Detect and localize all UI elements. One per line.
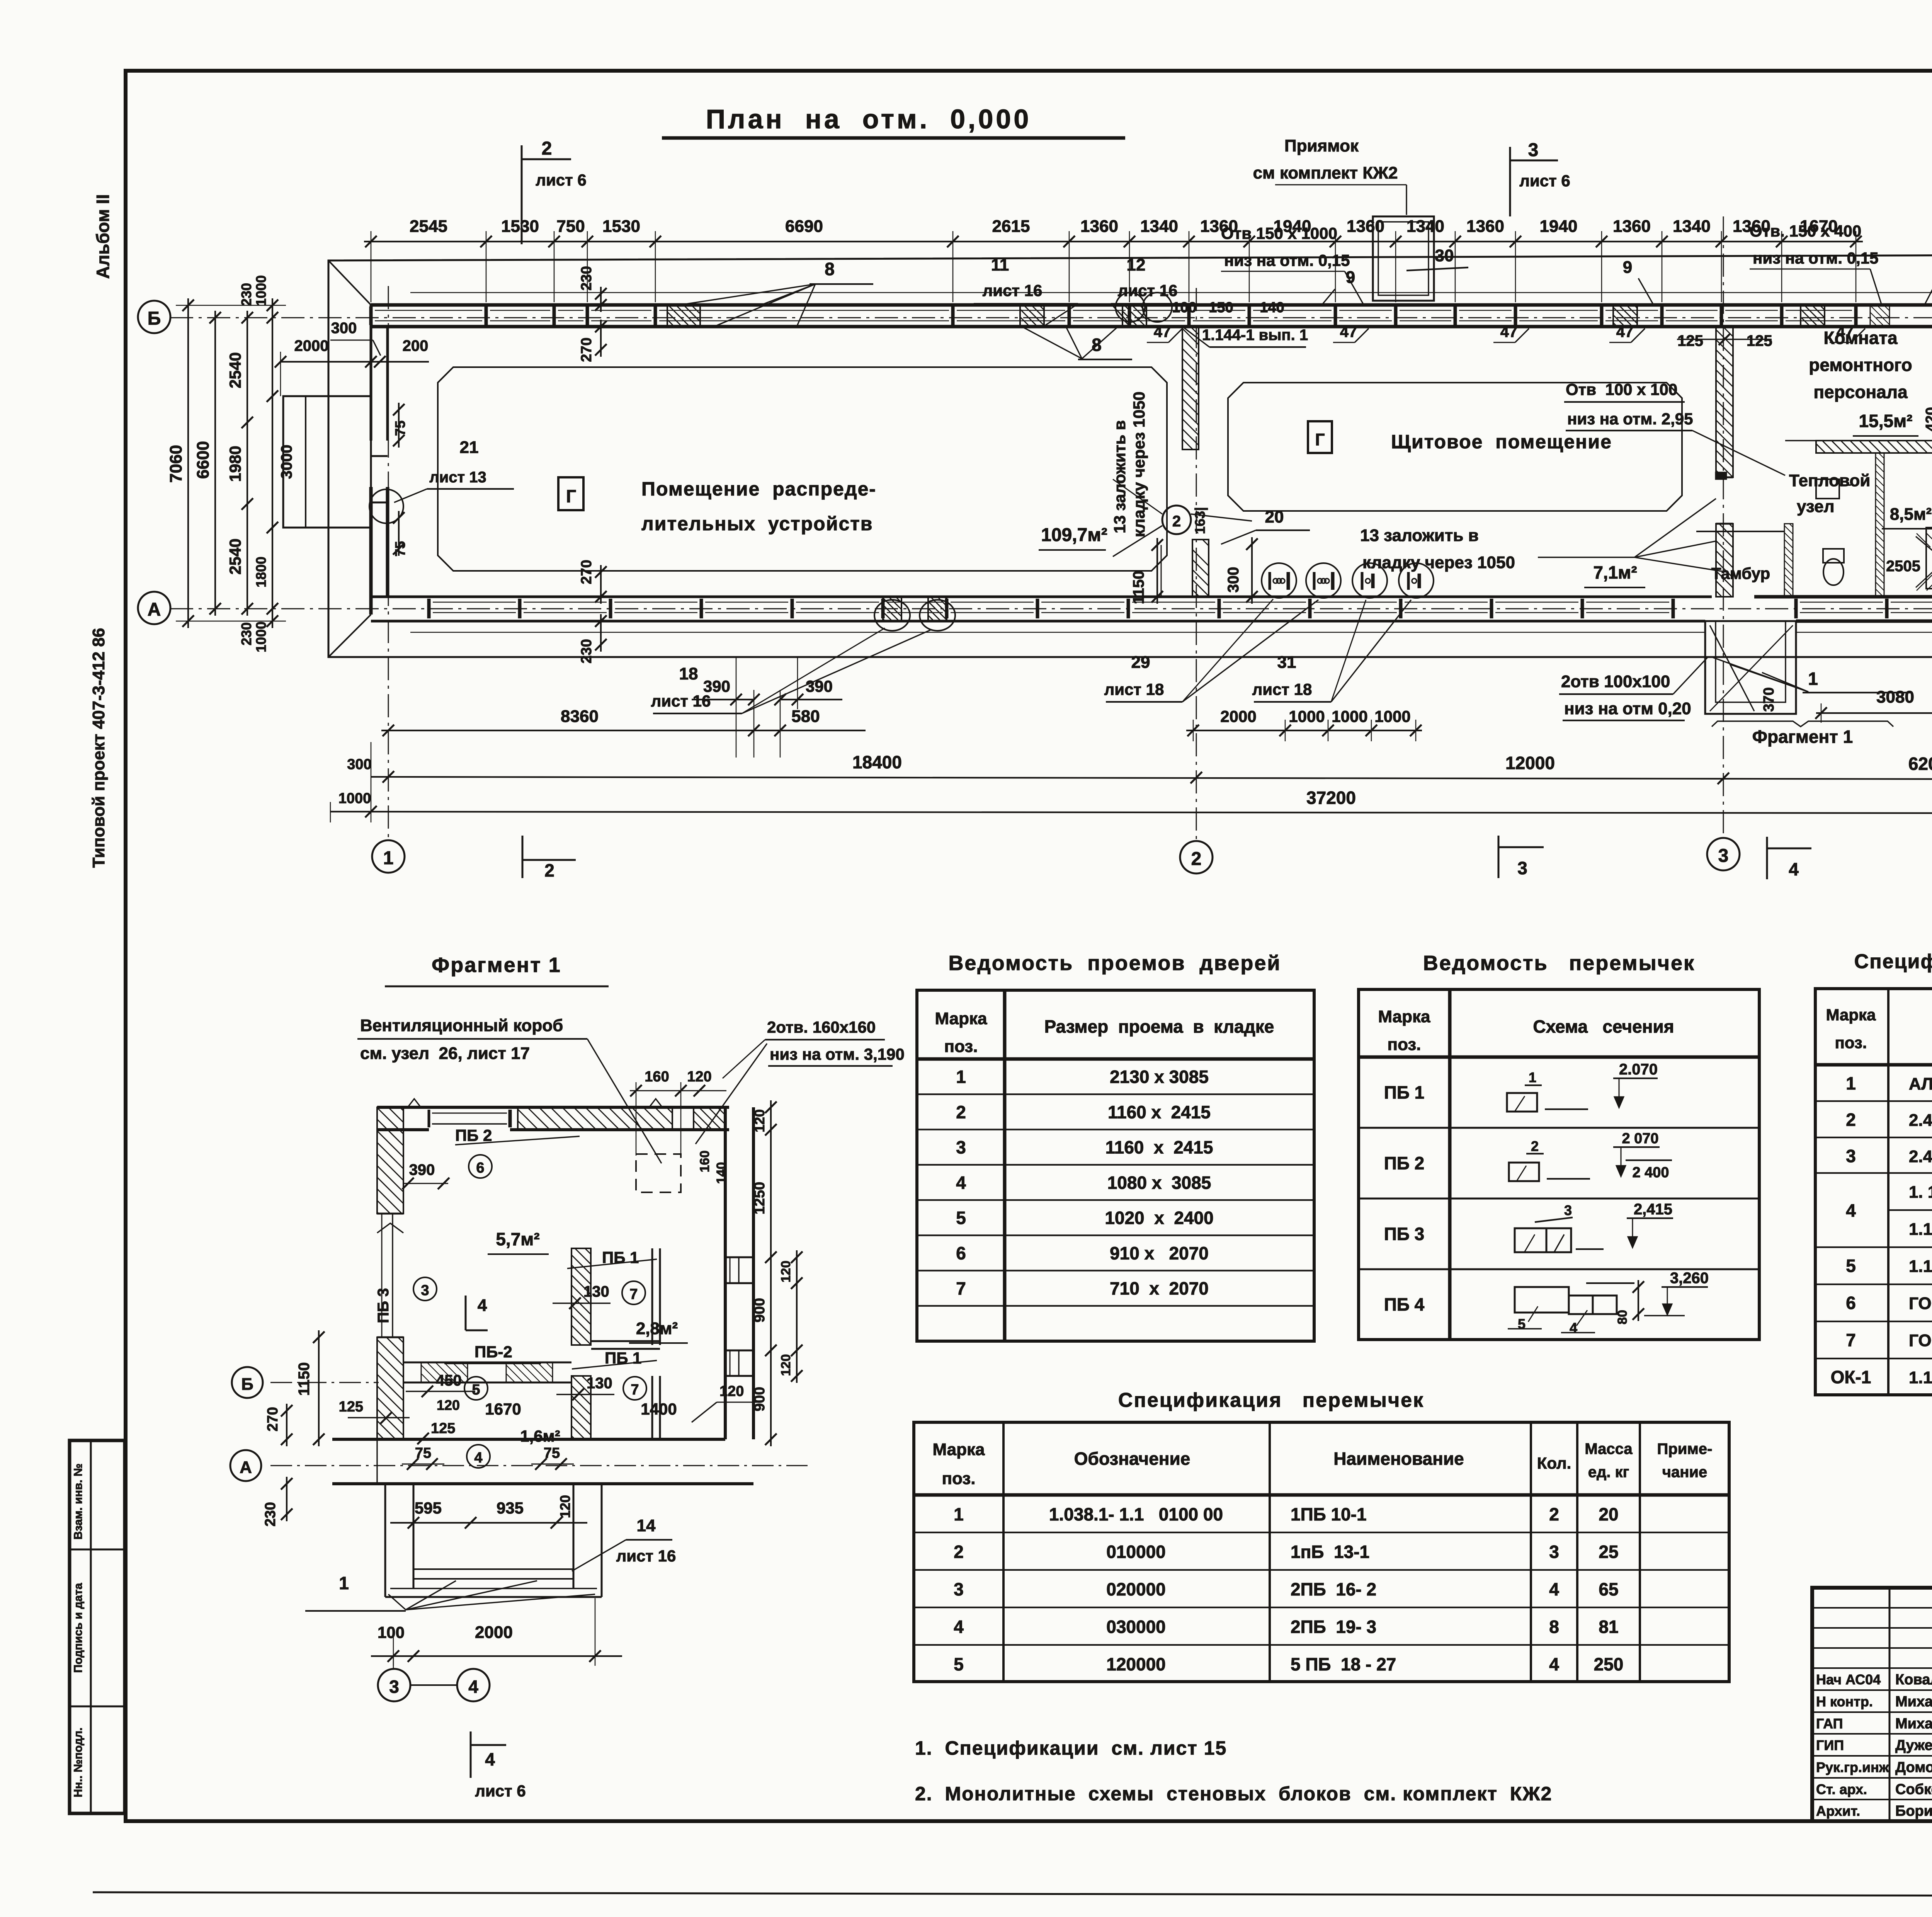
horizontal dims 2000 200 porch: [281, 361, 429, 363]
hatched piers in top wall: [667, 305, 700, 327]
svg-text:низ на отм. 2,95: низ на отм. 2,95: [1567, 410, 1693, 428]
svg-text:Нн.. №подл.: Нн.. №подл.: [72, 1728, 85, 1798]
svg-text:1340: 1340: [1673, 217, 1711, 236]
svg-text:7060: 7060: [167, 445, 185, 483]
svg-text:Собко: Собко: [1895, 1781, 1932, 1798]
axis circle 3 bottom: [1707, 838, 1740, 870]
svg-text:1ПБ 10-1: 1ПБ 10-1: [1291, 1504, 1367, 1524]
apron corner diagonal top-left: [328, 260, 371, 305]
svg-text:37200: 37200: [1306, 788, 1356, 808]
svg-text:4: 4: [1549, 1579, 1559, 1599]
svg-text:1: 1: [956, 1067, 966, 1087]
svg-text:3: 3: [1846, 1146, 1856, 1166]
svg-text:120: 120: [557, 1495, 573, 1518]
svg-text:Спецификация элементов запо: Спецификация элементов заполнения проемо…: [1854, 950, 1932, 973]
svg-text:420: 420: [1923, 407, 1932, 431]
svg-text:низ на отм. 0,15: низ на отм. 0,15: [1224, 251, 1350, 269]
svg-text:65: 65: [1599, 1579, 1618, 1599]
axis circle 2 bottom: [1180, 841, 1213, 873]
svg-text:1150: 1150: [1130, 571, 1147, 604]
dim 8360 580: [381, 730, 866, 731]
svg-text:Марка: Марка: [935, 1009, 987, 1028]
svg-text:2000: 2000: [1220, 707, 1256, 725]
svg-text:1: 1: [383, 848, 394, 868]
svg-text:Рук.гр.инж: Рук.гр.инж: [1816, 1759, 1889, 1775]
svg-text:7: 7: [629, 1286, 638, 1302]
svg-text:900: 900: [752, 1387, 768, 1411]
svg-text:1980: 1980: [226, 446, 244, 482]
svg-text:12000: 12000: [1505, 753, 1555, 773]
svg-text:30: 30: [1435, 246, 1454, 265]
svg-text:1000: 1000: [1289, 707, 1325, 725]
title block outer box: [1812, 1588, 1932, 1821]
svg-text:910 х 2070: 910 х 2070: [1110, 1243, 1209, 1263]
svg-text:ремонтного: ремонтного: [1809, 355, 1912, 375]
svg-text:390: 390: [806, 677, 833, 695]
svg-text:1530: 1530: [501, 217, 539, 236]
svg-text:3,260: 3,260: [1670, 1270, 1709, 1287]
svg-text:Вентиляционный короб: Вентиляционный короб: [360, 1016, 563, 1035]
svg-text:лист 6: лист 6: [1519, 172, 1570, 190]
svg-text:935: 935: [497, 1499, 524, 1517]
svg-text:15,5м²: 15,5м²: [1859, 411, 1913, 431]
svg-text:1000: 1000: [253, 275, 269, 306]
svg-text:6200: 6200: [1908, 754, 1932, 774]
svg-text:Кол.: Кол.: [1537, 1454, 1571, 1472]
RU room letter box: [558, 477, 583, 510]
fragment axis circles 3 4 bottom: [378, 1669, 410, 1701]
ellipse marks around piers: [874, 600, 910, 631]
svg-text:18400: 18400: [852, 752, 902, 772]
svg-text:1: 1: [1529, 1069, 1536, 1085]
svg-text:595: 595: [415, 1499, 442, 1517]
svg-text:270: 270: [578, 560, 595, 584]
svg-text:163|: 163|: [1192, 507, 1208, 534]
svg-text:2,415: 2,415: [1634, 1201, 1672, 1218]
opening hatch top right wall: [1870, 305, 1889, 327]
svg-text:1360: 1360: [1466, 217, 1504, 236]
fragment bottom wall: [332, 1438, 725, 1441]
svg-text:130: 130: [583, 1283, 609, 1300]
svg-text:7: 7: [631, 1382, 639, 1398]
partition between rooms at axis 2: [1182, 327, 1199, 449]
svg-text:лист 13: лист 13: [429, 469, 486, 486]
svg-text:270: 270: [578, 337, 595, 362]
svg-text:Н контр.: Н контр.: [1816, 1694, 1873, 1709]
svg-text:1000: 1000: [1374, 707, 1410, 725]
svg-text:5: 5: [472, 1382, 480, 1398]
svg-text:2. Монолитные схемы стеновы: 2. Монолитные схемы стеновых блоков см. …: [915, 1783, 1552, 1805]
svg-text:109,7м²: 109,7м²: [1041, 525, 1107, 545]
svg-text:Ведомость перемычек: Ведомость перемычек: [1423, 952, 1695, 975]
svg-text:1000: 1000: [253, 621, 269, 652]
left wall inner face: [386, 327, 389, 441]
svg-text:4: 4: [468, 1677, 478, 1697]
left dim 6600: [214, 311, 216, 616]
svg-text:см. узел 26, лист 17: см. узел 26, лист 17: [360, 1044, 530, 1063]
lintel PB3 sketch: [1515, 1228, 1546, 1252]
pit shaft above axis 3: [1373, 216, 1434, 301]
svg-text:А: А: [148, 599, 161, 620]
svg-text:лист 16: лист 16: [983, 281, 1043, 300]
svg-text:Б: Б: [241, 1375, 253, 1394]
svg-text:125: 125: [431, 1420, 455, 1437]
apron inner edge top: [410, 292, 1932, 293]
svg-text:Наименование: Наименование: [1333, 1449, 1464, 1469]
svg-text:Альбом II: Альбом II: [93, 194, 113, 279]
svg-text:120000: 120000: [1106, 1654, 1166, 1674]
bottom wall window sills and ticks: [433, 602, 516, 603]
svg-text:4: 4: [956, 1173, 966, 1193]
svg-text:8360: 8360: [561, 707, 599, 726]
svg-text:3: 3: [954, 1579, 964, 1599]
svg-text:АЛЬБо М V АРИ-3: АЛЬБо М V АРИ-3: [1909, 1074, 1932, 1093]
svg-text:Отв 150 х 1000: Отв 150 х 1000: [1221, 224, 1337, 242]
svg-text:3: 3: [1718, 846, 1729, 866]
svg-text:2: 2: [1172, 513, 1181, 530]
svg-text:4: 4: [954, 1617, 964, 1637]
svg-text:300: 300: [331, 320, 357, 337]
svg-text:Взам. инв. №: Взам. инв. №: [72, 1464, 85, 1540]
svg-text:2ПБ 16- 2: 2ПБ 16- 2: [1291, 1579, 1376, 1599]
svg-text:ПБ 4: ПБ 4: [1384, 1294, 1425, 1314]
svg-text:1.136.5- 19: 1.136.5- 19: [1909, 1257, 1932, 1276]
apron inner edge bottom: [410, 632, 1705, 633]
svg-text:Архит.: Архит.: [1816, 1803, 1860, 1819]
top wall window sills and mullion ticks: [375, 310, 482, 311]
fragment right dims: [770, 1100, 772, 1446]
svg-text:Приямок: Приямок: [1284, 136, 1359, 155]
fragment section mark 4 bottom: [470, 1731, 472, 1778]
svg-text:поз.: поз.: [1835, 1033, 1867, 1052]
svg-text:140: 140: [1260, 300, 1284, 316]
svg-text:Ковалев: Ковалев: [1895, 1672, 1932, 1688]
svg-text:лист 18: лист 18: [1104, 680, 1164, 698]
svg-text:75: 75: [392, 421, 408, 436]
fragment top wall: [377, 1106, 729, 1109]
svg-text:1000: 1000: [338, 790, 371, 807]
svg-text:см комплект КЖ2: см комплект КЖ2: [1253, 163, 1398, 182]
svg-text:Б: Б: [148, 308, 161, 329]
svg-text:5: 5: [1846, 1256, 1856, 1276]
svg-text:2: 2: [1846, 1110, 1856, 1130]
svg-text:низ на отм. 0,15: низ на отм. 0,15: [1753, 249, 1878, 267]
svg-text:1150: 1150: [296, 1362, 313, 1396]
svg-text:Отв 100 х 100: Отв 100 х 100: [1566, 380, 1677, 398]
axis B horizontal dash-dot: [170, 317, 1932, 318]
svg-text:020000: 020000: [1106, 1579, 1166, 1599]
svg-text:1.144-1 вып. 1: 1.144-1 вып. 1: [1202, 327, 1308, 344]
svg-text:Михайлов: Михайлов: [1895, 1716, 1932, 1732]
svg-text:11: 11: [991, 255, 1009, 274]
svg-text:5: 5: [956, 1208, 966, 1228]
svg-text:100: 100: [378, 1623, 405, 1641]
axis circle A left: [138, 592, 170, 624]
axis circle 1 bottom: [372, 840, 405, 873]
svg-text:47: 47: [1500, 323, 1518, 340]
left porch slab: [283, 396, 371, 528]
svg-text:010000: 010000: [1106, 1542, 1166, 1562]
svg-text:ГАП: ГАП: [1816, 1716, 1843, 1731]
lintel PB4 sketch: [1515, 1287, 1569, 1313]
svg-text:120: 120: [687, 1069, 711, 1085]
svg-text:12: 12: [1127, 255, 1146, 274]
svg-text:160: 160: [645, 1069, 669, 1085]
svg-text:2: 2: [956, 1102, 966, 1122]
section mark 3 bottom: [1498, 836, 1500, 878]
tambour partitions: [1784, 524, 1793, 597]
svg-text:4: 4: [1846, 1200, 1856, 1221]
svg-text:1940: 1940: [1540, 217, 1578, 236]
svg-text:6: 6: [476, 1160, 484, 1176]
svg-text:поз.: поз.: [944, 1037, 978, 1056]
svg-text:Тамбур: Тамбур: [1711, 564, 1770, 582]
dim 2000 1000 x3: [1186, 730, 1422, 731]
svg-text:2: 2: [1191, 849, 1202, 869]
dim chain 390 390: [692, 699, 754, 700]
svg-text:Доможирова: Доможирова: [1895, 1759, 1932, 1776]
svg-text:2.435-6 в. 1: 2.435-6 в. 1: [1909, 1147, 1932, 1166]
svg-text:20: 20: [1599, 1504, 1618, 1524]
svg-text:ГОСТ 6629-74*: ГОСТ 6629-74*: [1909, 1294, 1932, 1313]
svg-text:390: 390: [409, 1161, 435, 1178]
left dim 2540 1980 2540: [247, 311, 248, 616]
svg-text:3: 3: [1517, 858, 1527, 878]
svg-text:2,8м²: 2,8м²: [636, 1319, 678, 1338]
svg-text:4: 4: [1570, 1320, 1577, 1336]
svg-text:Борисова: Борисова: [1895, 1803, 1932, 1819]
svg-text:4: 4: [478, 1296, 487, 1315]
fragment 1 brace and label: [1712, 721, 1893, 727]
section mark 3 top: [1509, 147, 1511, 216]
bottom wall inner face: [371, 596, 1712, 598]
bottom wall outer face: [371, 620, 1705, 623]
svg-text:120: 120: [752, 1109, 767, 1132]
svg-text:6690: 6690: [785, 217, 823, 236]
svg-text:1пБ 13-1: 1пБ 13-1: [1291, 1542, 1369, 1562]
svg-text:1000: 1000: [1332, 707, 1367, 725]
svg-text:230: 230: [238, 622, 254, 645]
svg-text:120: 120: [779, 1354, 793, 1376]
svg-text:7: 7: [1846, 1330, 1856, 1350]
svg-text:1340: 1340: [1406, 217, 1444, 236]
tambour pit below bottom wall: [1705, 621, 1796, 714]
svg-text:47: 47: [1340, 323, 1357, 340]
left wall door jambs: [371, 455, 388, 457]
svg-text:ГОСТ 6629-74*: ГОСТ 6629-74*: [1909, 1331, 1932, 1350]
svg-text:750: 750: [556, 217, 585, 236]
svg-text:Фрагмент 1: Фрагмент 1: [432, 953, 561, 977]
svg-text:47: 47: [1154, 323, 1171, 340]
svg-text:250: 250: [1594, 1654, 1624, 1674]
svg-text:125: 125: [1747, 332, 1772, 349]
svg-text:ПБ 2: ПБ 2: [1384, 1153, 1425, 1173]
svg-text:13 заложить в: 13 заложить в: [1111, 420, 1129, 533]
svg-text:5: 5: [954, 1654, 964, 1674]
svg-text:390: 390: [703, 677, 730, 695]
apron outline around building: [328, 255, 1932, 657]
svg-text:1: 1: [954, 1504, 964, 1524]
svg-text:1.136.5-16.4.1.01.00.004: 1.136.5-16.4.1.01.00.004: [1909, 1368, 1932, 1387]
fragment left wall upper: [377, 1107, 403, 1214]
svg-text:2.070: 2.070: [1619, 1061, 1658, 1078]
table door openings grid: [917, 990, 1314, 1341]
svg-text:Тепловой: Тепловой: [1789, 471, 1870, 490]
svg-text:2: 2: [1531, 1138, 1539, 1154]
fragment small partitions WC: [651, 1248, 653, 1345]
left wall outer face: [370, 305, 372, 441]
fragment right wall: [724, 1107, 727, 1439]
svg-text:150: 150: [1209, 300, 1233, 316]
svg-text:ПБ 3: ПБ 3: [1384, 1224, 1425, 1244]
hatched pit square pos 27: [1926, 528, 1932, 589]
vent box dashed: [636, 1154, 681, 1192]
svg-text:1: 1: [1846, 1073, 1856, 1093]
svg-text:кладку через 1050: кладку через 1050: [1130, 392, 1148, 537]
left dim 7060: [187, 298, 189, 628]
svg-text:1670: 1670: [485, 1400, 521, 1418]
WC fixtures: [1823, 559, 1844, 585]
svg-text:1160 х 2415: 1160 х 2415: [1108, 1102, 1211, 1122]
svg-text:Комната: Комната: [1823, 328, 1897, 348]
svg-text:Щитовое помещение: Щитовое помещение: [1391, 431, 1612, 453]
svg-text:ПБ-2: ПБ-2: [474, 1343, 512, 1361]
svg-text:лительных устройств: лительных устройств: [641, 513, 873, 535]
axis 3 vertical dash-dot: [1723, 216, 1724, 838]
svg-text:1020 х 2400: 1020 х 2400: [1105, 1208, 1213, 1228]
svg-text:лист 16: лист 16: [616, 1547, 676, 1565]
svg-text:81: 81: [1599, 1617, 1618, 1637]
svg-text:поз.: поз.: [942, 1469, 976, 1488]
partition axis 3 hatched: [1716, 327, 1733, 477]
svg-text:450: 450: [436, 1372, 462, 1389]
svg-text:900: 900: [752, 1298, 768, 1322]
axis A horizontal dash-dot: [170, 608, 1932, 609]
svg-text:Ведомость проемов дверей: Ведомость проемов дверей: [948, 952, 1281, 975]
svg-text:поз.: поз.: [1388, 1035, 1421, 1054]
svg-text:130: 130: [587, 1375, 612, 1392]
cable entry circles pos 29/31: [1262, 563, 1296, 598]
svg-text:2130 х 3085: 2130 х 3085: [1110, 1067, 1209, 1087]
table filling spec grid: [1815, 989, 1932, 1395]
svg-text:270: 270: [265, 1407, 281, 1431]
table lintels grid: [1359, 989, 1759, 1340]
svg-text:3: 3: [1564, 1202, 1572, 1218]
svg-text:4: 4: [485, 1749, 495, 1769]
svg-text:1800: 1800: [253, 557, 269, 587]
scan sheet bottom edge: [93, 1892, 1932, 1897]
section mark 4 bottom: [1766, 837, 1768, 879]
section mark 2 top: [521, 145, 523, 244]
svg-text:030000: 030000: [1106, 1617, 1166, 1637]
svg-text:Г: Г: [566, 486, 576, 506]
svg-text:2: 2: [542, 138, 552, 159]
svg-text:47: 47: [1616, 323, 1634, 340]
fragment partition horizontal: [403, 1362, 571, 1364]
svg-text:Схема сечения: Схема сечения: [1533, 1016, 1674, 1037]
apron corner diagonal bottom-left: [328, 615, 371, 657]
svg-text:2отв. 160х160: 2отв. 160х160: [767, 1018, 876, 1036]
svg-text:1,6м²: 1,6м²: [520, 1427, 560, 1445]
RU room outline: [438, 367, 1167, 571]
svg-text:140: 140: [714, 1162, 729, 1184]
svg-text:4: 4: [1789, 859, 1799, 879]
dim row 37200: [330, 812, 1932, 813]
svg-text:2: 2: [954, 1542, 964, 1562]
svg-text:узел: узел: [1797, 497, 1835, 516]
svg-text:5: 5: [1518, 1316, 1526, 1332]
svg-text:персонала: персонала: [1813, 382, 1908, 402]
svg-text:6: 6: [1846, 1293, 1856, 1313]
fragment break marks left wall: [377, 1223, 403, 1233]
svg-text:6: 6: [956, 1243, 966, 1263]
svg-text:3: 3: [421, 1282, 429, 1299]
svg-text:14: 14: [637, 1516, 656, 1535]
svg-text:Марка: Марка: [1826, 1006, 1876, 1024]
svg-text:8: 8: [1549, 1617, 1559, 1637]
svg-text:230: 230: [578, 266, 595, 290]
svg-text:29: 29: [1131, 653, 1150, 672]
svg-text:7: 7: [956, 1279, 966, 1299]
svg-text:125: 125: [1677, 332, 1703, 349]
svg-text:Обозначение: Обозначение: [1074, 1449, 1190, 1469]
top wall inner face: [371, 325, 1932, 329]
fragment axis B dashdot: [270, 1382, 379, 1383]
svg-text:1. Спецификации см. лист 15: 1. Спецификации см. лист 15: [915, 1737, 1227, 1759]
svg-text:2отв 100х100: 2отв 100х100: [1561, 672, 1670, 691]
shield room outline: [1228, 383, 1682, 511]
svg-text:ОК-1: ОК-1: [1831, 1367, 1871, 1387]
svg-text:7,1м²: 7,1м²: [1593, 562, 1637, 582]
svg-text:8,5м²: 8,5м²: [1890, 505, 1932, 524]
horizontal hatched partition heat unit: [1816, 441, 1932, 453]
svg-text:300: 300: [1225, 567, 1242, 593]
axis 2 vertical dash-dot: [1196, 288, 1197, 841]
svg-text:5 ПБ 18 - 27: 5 ПБ 18 - 27: [1291, 1654, 1396, 1674]
svg-text:370: 370: [1761, 687, 1777, 712]
svg-text:ПБ 1: ПБ 1: [1384, 1083, 1425, 1103]
svg-text:2000: 2000: [475, 1623, 513, 1642]
title block signature columns: [1889, 1588, 1891, 1821]
pos 12 circles on wall: [1116, 293, 1145, 322]
svg-text:1400: 1400: [641, 1400, 677, 1418]
svg-text:2 400: 2 400: [1632, 1165, 1669, 1181]
svg-text:230: 230: [578, 639, 595, 663]
svg-text:47: 47: [1837, 323, 1854, 340]
svg-text:Типовой проект 407-3-412 86: Типовой проект 407-3-412 86: [89, 628, 108, 868]
svg-text:ПБ 3: ПБ 3: [375, 1288, 392, 1323]
svg-text:13 заложить в: 13 заложить в: [1360, 526, 1479, 545]
svg-text:1.038.1- 1.1 0100 00: 1.038.1- 1.1 0100 00: [1049, 1504, 1223, 1524]
fragment axis circles: [232, 1367, 263, 1398]
fragment section mark 4 mid: [465, 1296, 467, 1330]
axis circle B left: [138, 301, 170, 333]
svg-text:низ на отм 0,20: низ на отм 0,20: [1564, 699, 1691, 718]
svg-text:Нач АС04: Нач АС04: [1816, 1672, 1881, 1687]
svg-text:2540: 2540: [226, 352, 244, 388]
svg-text:1250: 1250: [752, 1182, 768, 1215]
svg-text:21: 21: [460, 438, 479, 457]
svg-text:Марка: Марка: [932, 1440, 985, 1459]
left margin stamp boxes: [70, 1440, 125, 1813]
svg-text:1. 136.5-19 06.000 СБ: 1. 136.5-19 06.000 СБ: [1909, 1183, 1932, 1202]
svg-text:Дуженкова: Дуженкова: [1895, 1737, 1932, 1754]
svg-text:5,7м²: 5,7м²: [496, 1229, 539, 1249]
top dimension chain of plan: [364, 241, 1863, 242]
hatched piers in bottom wall pos 18: [883, 597, 901, 621]
svg-text:Ст. арх.: Ст. арх.: [1816, 1781, 1867, 1797]
svg-text:2000: 2000: [294, 337, 329, 354]
